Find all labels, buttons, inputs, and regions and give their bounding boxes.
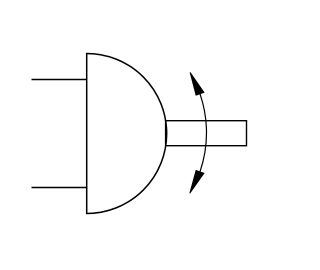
arrowhead (top, pointing up-left) [190,72,204,95]
wire: top port line [32,79,87,81]
semi-rotary actuator body (D-shape) [87,54,167,214]
shaft rectangle [166,121,247,146]
arrowhead (bottom, pointing down-left) [190,170,204,193]
rotation arrow arc [200,94,207,172]
wire: bottom port line [32,187,87,189]
